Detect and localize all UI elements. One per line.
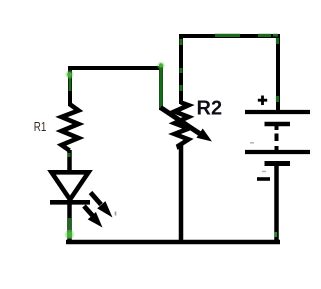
- svg-text:R1: R1: [34, 119, 47, 134]
- wire: LED bottom lead down to bottom rail: [67, 203, 72, 241]
- artifact mark above − label: [262, 171, 266, 173]
- battery inter-cell dashed link: [275, 126, 279, 150]
- wire: top rail (pot top to battery top): [181, 36, 278, 110]
- artifact mark left of dashed link: [250, 142, 254, 144]
- resistor R1 (zigzag): [62, 104, 79, 151]
- green underlay: pot vertical segments: [179, 39, 182, 91]
- potentiometer wiper arrow: [161, 108, 213, 142]
- green underlay: top rail corner bit: [273, 34, 278, 37]
- battery plate 4 (short, −): [265, 161, 291, 166]
- green underlay: top rail segment 1: [215, 34, 240, 37]
- wire: left loop (LED branch top: left vertical, top horizontal, down to pot-left): [70, 68, 161, 110]
- node: junction dot on LED bottom lead: [65, 230, 75, 240]
- wire: battery bottom lead down to bottom rail: [274, 164, 279, 241]
- green underlay: battery bottom corner tick: [274, 232, 277, 237]
- green underlay: pot-left vertical (mostly green): [159, 69, 163, 108]
- node: junction dot at pot-left top corner: [157, 62, 165, 70]
- battery B1: plate 1 (long, +): [245, 110, 310, 114]
- potentiometer R2 (zigzag): [175, 103, 189, 150]
- green underlay: battery top wire segment: [276, 38, 279, 102]
- battery plate 3 (long): [245, 150, 310, 154]
- battery + terminal label: [258, 96, 267, 106]
- LED light arrow (upper right): [91, 193, 113, 218]
- LED D1 (triangle): [52, 172, 89, 199]
- node: junction dot top-left corner: [65, 70, 73, 78]
- wire: R1 to LED short lead: [67, 150, 72, 171]
- artifact mark near LED arrows: [115, 212, 117, 216]
- wire: bottom rail: [66, 240, 280, 245]
- LED cathode bar: [50, 200, 90, 205]
- green underlay: top rail segment 2: [258, 34, 271, 37]
- green underlay: LED bottom lead segment: [68, 218, 71, 238]
- wire: pot bottom lead down to bottom rail: [179, 144, 184, 241]
- svg-text:R2: R2: [197, 98, 223, 120]
- battery − terminal label: [257, 177, 270, 181]
- green underlay: left vertical segment: [69, 73, 72, 91]
- battery plate 2 (short): [265, 122, 291, 127]
- green underlay: R1 bottom tick: [68, 153, 71, 157]
- LED light arrow (lower left): [84, 206, 103, 228]
